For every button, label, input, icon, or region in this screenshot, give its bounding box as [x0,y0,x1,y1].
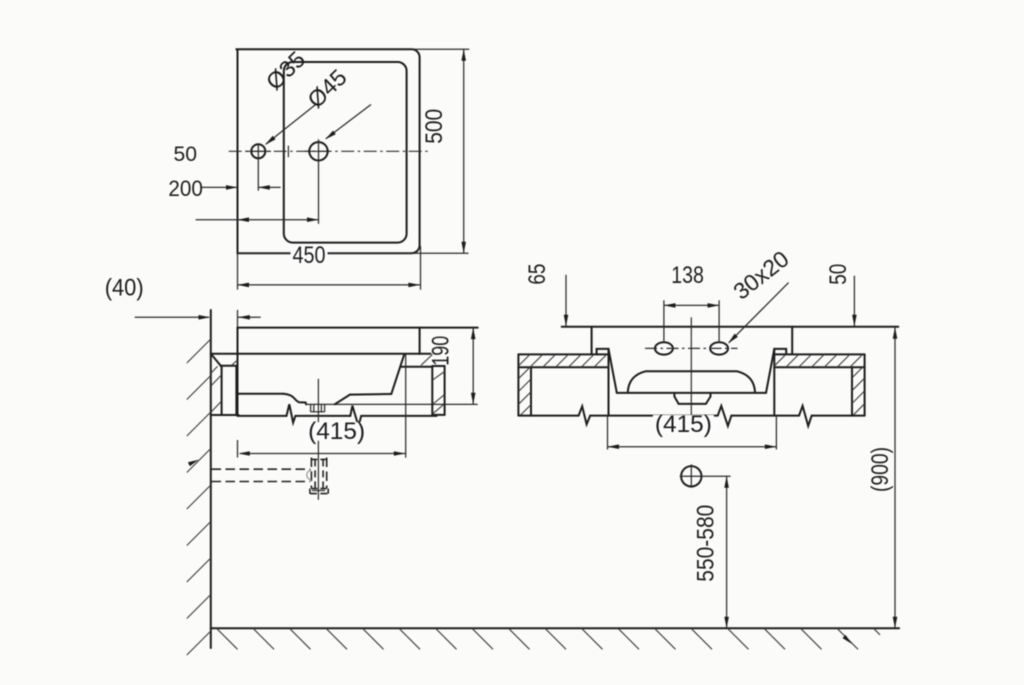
svg-text:200: 200 [168,176,203,201]
svg-text:(415): (415) [655,411,712,438]
svg-text:65: 65 [524,264,551,285]
svg-text:(415): (415) [308,418,365,445]
svg-text:(900): (900) [867,447,894,492]
svg-text:500: 500 [421,109,448,144]
svg-text:450: 450 [293,242,326,269]
svg-text:(40): (40) [105,275,144,302]
svg-text:138: 138 [671,262,704,289]
svg-text:550-580: 550-580 [693,505,720,582]
svg-text:50: 50 [825,264,852,285]
svg-text:190: 190 [428,336,455,366]
svg-text:50: 50 [174,143,198,166]
